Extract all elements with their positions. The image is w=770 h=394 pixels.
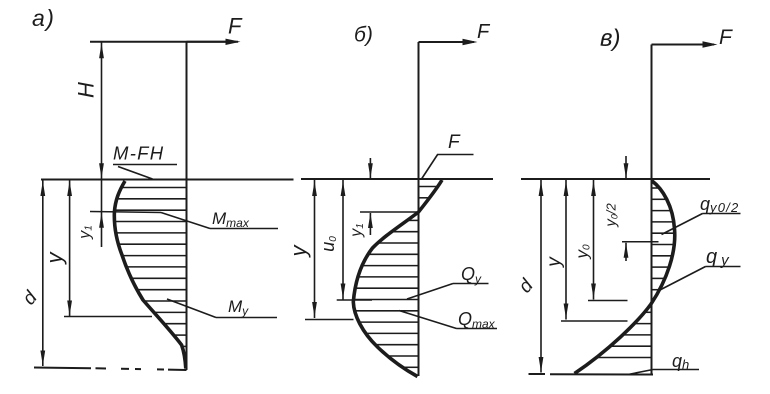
- fig v: label q_h leader line: [628, 370, 653, 375]
- fig a: force F arrow: [187, 41, 239, 43]
- fig a: dimension y line with arrows: [69, 180, 71, 317]
- fig a: dimension y level line: [64, 316, 152, 318]
- svg-text:Mу: Mу: [228, 297, 249, 318]
- fig b: label Qmax leader line: [399, 311, 457, 329]
- fig a: dimension d line with arrows: [42, 180, 44, 366]
- svg-text:F: F: [228, 14, 243, 39]
- fig a: pile cap top line: [90, 41, 228, 43]
- fig v: hatching of pressure diagram: [598, 188, 674, 358]
- svg-text:у1: у1: [77, 225, 95, 240]
- svg-text:F: F: [448, 132, 461, 153]
- fig b: level line at y1 depth: [360, 211, 419, 213]
- fig a: level line at Mmax depth: [90, 212, 161, 213]
- fig v: dimension d line with arrows: [540, 180, 542, 373]
- fig a: label M=FH underline: [113, 164, 177, 166]
- fig a: dimension H bottom arrow: [99, 163, 104, 178]
- fig a: dimension H top arrow: [99, 43, 104, 58]
- svg-text:F: F: [719, 26, 733, 49]
- svg-text:б): б): [354, 24, 373, 47]
- fig v: pile column vertical line: [651, 45, 653, 375]
- fig v: label q_h underline: [653, 369, 699, 371]
- fig a: dimension y1 line with arrow: [101, 180, 103, 248]
- fig a: label My underline: [216, 317, 277, 319]
- fig v: dimension y0 label: [573, 244, 593, 260]
- fig a: dimension y1 label: [77, 225, 95, 240]
- fig b: dimension y line with arrows: [314, 180, 316, 319]
- svg-text:у0: у0: [573, 244, 593, 260]
- fig v: ground surface line: [521, 178, 710, 180]
- fig a: pile column vertical line: [186, 42, 188, 370]
- svg-text:у0/2: у0/2: [603, 203, 620, 228]
- fig v: dimension y0 level line: [588, 300, 628, 302]
- fig a: label Mmax leader line: [161, 213, 210, 229]
- fig b: label F leader line: [422, 155, 438, 180]
- fig v: dimension y0/2 label: [603, 203, 620, 228]
- fig v: dimension y0/2 lower line with arrow: [625, 243, 627, 261]
- svg-text:d: d: [19, 287, 43, 310]
- fig v: dimension y0 line with arrows: [593, 180, 595, 300]
- fig v: dimension y0/2 upper arrow line: [625, 156, 627, 179]
- fig b: dimension y1 lower line with arrow: [369, 213, 371, 235]
- fig v: label q_y0/2 leader line: [662, 214, 703, 235]
- svg-text:Mmax: Mmax: [212, 209, 250, 230]
- fig a: label Mmax underline: [210, 228, 278, 230]
- fig v: level line at y0/2 depth: [622, 241, 659, 243]
- svg-text:у: у: [544, 256, 565, 269]
- fig b: force F arrow: [419, 41, 475, 43]
- svg-text:а): а): [32, 5, 55, 31]
- fig a: label M=FH leader line: [118, 167, 153, 180]
- fig v: pile tip bottom line: [529, 373, 654, 376]
- fig b: hatching of shear diagram: [355, 187, 437, 368]
- fig v: dimension y level line: [561, 320, 628, 322]
- fig b: pile column vertical line: [418, 42, 420, 376]
- svg-text:qh: qh: [672, 351, 689, 372]
- fig v: label q_y0/2 underline: [703, 213, 741, 215]
- fig a: hatching of moment diagram: [116, 188, 187, 358]
- fig b: ground surface line: [301, 178, 493, 180]
- svg-text:F: F: [477, 21, 491, 43]
- fig b: dimension y1 upper arrow line: [369, 158, 371, 179]
- svg-text:H: H: [74, 82, 99, 98]
- svg-text:Qmax: Qmax: [458, 309, 496, 331]
- fig b: label Qy underline: [453, 283, 489, 285]
- fig v: label q_y leader line: [658, 267, 706, 292]
- fig b: dimension y level line: [305, 319, 354, 321]
- svg-text:d: d: [515, 275, 539, 298]
- svg-text:Qу: Qу: [461, 264, 482, 286]
- fig b: dimension u0 label: [318, 236, 339, 252]
- fig a: label My leader line: [167, 299, 216, 318]
- fig b: dimension u0 level line: [337, 299, 372, 301]
- fig v: soil pressure diagram curve: [575, 181, 675, 374]
- fig b: dimension u0 line with arrows: [342, 180, 344, 300]
- svg-text:в): в): [600, 25, 621, 52]
- fig b: dimension y1 label: [348, 223, 366, 238]
- fig b: label Qy leader line: [407, 284, 453, 300]
- svg-text:у1: у1: [348, 223, 366, 238]
- svg-text:u0: u0: [318, 236, 339, 252]
- fig b: label F leader underline: [437, 154, 474, 156]
- svg-text:qу0/2: qу0/2: [700, 194, 739, 215]
- fig v: label q_y underline: [706, 266, 741, 268]
- svg-text:у: у: [42, 251, 67, 266]
- fig b: label Qmax underline: [457, 328, 498, 330]
- fig a: moment diagram curve: [114, 181, 185, 369]
- fig a: dimension H line: [101, 42, 103, 180]
- fig a: pile tip dashed bottom line: [34, 368, 187, 371]
- svg-text:у: у: [286, 244, 311, 259]
- svg-text:qу: qу: [706, 246, 730, 269]
- fig v: dimension y line with arrows: [565, 180, 567, 320]
- svg-text:M-FH: M-FH: [113, 143, 164, 164]
- fig a: ground surface line: [41, 179, 294, 181]
- fig b: shear diagram curve: [353, 180, 442, 377]
- fig v: force F arrow: [652, 44, 715, 46]
